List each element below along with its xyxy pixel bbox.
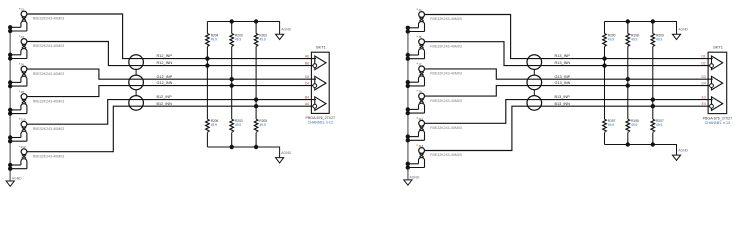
svg-text:R0E32K243-40M03: R0E32K243-40M03 <box>430 126 462 130</box>
wire G12_INP from J6 <box>27 69 316 79</box>
svg-text:49.9: 49.9 <box>235 123 241 127</box>
node junction L col2 N <box>230 83 234 87</box>
svg-text:R0E32K243-40M03: R0E32K243-40M03 <box>33 17 65 21</box>
wire top rail L <box>207 22 279 35</box>
resistor R198 <box>626 33 639 46</box>
svg-text:R13_INN: R13_INN <box>555 61 571 65</box>
op-amp buffer R2 <box>712 76 723 90</box>
resistor R206 <box>206 119 219 132</box>
svg-text:D2: D2 <box>701 61 705 65</box>
resistor R200 <box>230 33 243 46</box>
svg-text:D1: D1 <box>701 54 705 58</box>
svg-text:CHANNEL n-12: CHANNEL n-12 <box>308 120 333 124</box>
svg-text:J5: J5 <box>418 35 422 39</box>
resistor R195 <box>626 119 639 132</box>
node bubble input R2 <box>710 84 714 88</box>
resistor R209 <box>651 33 664 46</box>
wire termination column 2 L <box>231 22 233 148</box>
svg-text:J11: J11 <box>418 117 423 121</box>
connector J9 <box>406 90 462 116</box>
socket SKT1 R box <box>703 45 733 125</box>
node junction top rail R col2 <box>626 19 630 23</box>
node bubble input L1 <box>313 64 317 68</box>
resistor R202 <box>254 33 267 46</box>
svg-text:49.9: 49.9 <box>211 123 217 127</box>
resistor R197 <box>603 119 616 132</box>
svg-text:A4: A4 <box>305 102 309 106</box>
wire R12_INP from J2 <box>27 14 316 59</box>
shield circle pair 2 R <box>527 75 542 90</box>
wire shield link L 1-2 <box>135 69 137 75</box>
wire B12_INP from J10 <box>27 100 316 125</box>
resistor R205 <box>254 119 267 132</box>
svg-text:B13_INP: B13_INP <box>555 95 571 99</box>
svg-text:AGND: AGND <box>678 28 688 32</box>
node bubble input R1 <box>710 64 714 68</box>
shield circle pair 3 R <box>527 96 542 111</box>
svg-text:R0E32K243-40M03: R0E32K243-40M03 <box>33 72 65 76</box>
node junction L col1 N <box>205 63 209 67</box>
resistor R204 <box>206 33 219 46</box>
wire G13_INN from J9 <box>425 86 710 97</box>
svg-text:A6: A6 <box>305 54 309 58</box>
wire B12_INN from J12 <box>27 106 313 152</box>
shield circle pair 3 L <box>129 96 144 111</box>
svg-text:E3: E3 <box>702 95 706 99</box>
svg-text:B13_INN: B13_INN <box>555 102 571 106</box>
svg-text:49.9: 49.9 <box>259 37 265 41</box>
ground AGND top rail L <box>276 28 292 40</box>
wire R12_INN from J4 <box>27 42 313 66</box>
svg-text:J13: J13 <box>418 144 423 148</box>
node junction bottom rail L col3 <box>254 145 258 149</box>
svg-text:J7: J7 <box>418 62 422 66</box>
svg-text:PBGA-676_27X27: PBGA-676_27X27 <box>306 116 336 120</box>
connector J8 <box>8 90 64 116</box>
node junction bottom rail L col2 <box>230 145 234 149</box>
wire bottom rail L <box>207 147 279 158</box>
svg-text:R0E32K243-40M03: R0E32K243-40M03 <box>33 44 65 48</box>
node junction L col3 P <box>254 97 258 101</box>
svg-text:C4: C4 <box>305 81 309 85</box>
svg-text:J9: J9 <box>418 90 422 94</box>
connector J11 <box>406 117 462 143</box>
svg-text:SKT1: SKT1 <box>713 45 724 50</box>
wire G13_INP from J7 <box>425 69 713 79</box>
svg-text:AGND: AGND <box>281 28 291 32</box>
shield circle pair 1 R <box>527 55 542 70</box>
node junction L col1 P <box>205 56 209 60</box>
ground AGND bottom rail R <box>672 149 688 161</box>
svg-text:B6: B6 <box>305 61 309 65</box>
svg-text:R12_INN: R12_INN <box>157 61 173 65</box>
svg-text:R12_INP: R12_INP <box>157 54 173 58</box>
wire top rail R <box>605 22 677 35</box>
wire termination column 1 R <box>604 22 606 145</box>
op-amp buffer R3 <box>712 97 723 111</box>
node junction R col1 N <box>602 63 606 67</box>
svg-text:R0E32K243-40M03: R0E32K243-40M03 <box>33 127 65 131</box>
resistor R207 <box>651 119 664 132</box>
node junction R col1 P <box>602 56 606 60</box>
connector J2 <box>8 8 64 34</box>
svg-text:G13_INP: G13_INP <box>555 75 571 79</box>
socket SKT1 L box <box>306 45 336 125</box>
ground AGND top rail R <box>672 28 688 40</box>
op-amp buffer R1 <box>712 56 723 70</box>
svg-text:B12_INN: B12_INN <box>157 102 173 106</box>
node junction top rail L col2 <box>230 19 234 23</box>
connector J13 <box>406 144 462 170</box>
shield circle pair 2 L <box>129 75 144 90</box>
svg-text:J12: J12 <box>21 145 26 149</box>
node junction L col2 P <box>230 77 234 81</box>
connector J7 <box>406 62 462 88</box>
svg-text:R0E32K243-40M03: R0E32K243-40M03 <box>33 99 65 103</box>
svg-text:G13_INN: G13_INN <box>555 81 571 85</box>
svg-text:49.9: 49.9 <box>235 37 241 41</box>
svg-text:R0E32K243-40M03: R0E32K243-40M03 <box>430 44 462 48</box>
node bubble input L2 <box>313 84 317 88</box>
wire shield link L 2-3 <box>135 90 137 96</box>
svg-text:49.9: 49.9 <box>211 37 217 41</box>
svg-text:E4: E4 <box>702 102 706 106</box>
node junction bottom rail R col3 <box>651 142 655 146</box>
connector J5 <box>406 35 462 61</box>
wire termination column 3 L <box>255 22 257 148</box>
svg-text:49.9: 49.9 <box>631 123 637 127</box>
svg-text:49.9: 49.9 <box>608 123 614 127</box>
wire termination column 2 R <box>627 22 629 145</box>
resistor R203 <box>230 119 243 132</box>
wire G12_INN from J8 <box>27 86 313 97</box>
svg-text:R0E32K243-40M03: R0E32K243-40M03 <box>430 99 462 103</box>
svg-text:G12_INN: G12_INN <box>157 81 173 85</box>
node junction R col3 P <box>651 97 655 101</box>
svg-text:J10: J10 <box>21 118 26 122</box>
svg-text:R0E32K243-40M03: R0E32K243-40M03 <box>430 17 462 21</box>
wire B13_INN from J13 <box>425 106 710 150</box>
node junction L col3 N <box>254 104 258 108</box>
ground AGND bus L <box>6 176 22 186</box>
node junction bottom rail R col2 <box>626 142 630 146</box>
svg-text:D3: D3 <box>701 75 705 79</box>
svg-text:R0E32K243-40M03: R0E32K243-40M03 <box>33 154 65 158</box>
svg-text:49.9: 49.9 <box>608 37 614 41</box>
connector J3 <box>406 8 462 34</box>
svg-text:C6: C6 <box>305 75 309 79</box>
svg-text:AGND: AGND <box>12 176 22 180</box>
svg-text:J6: J6 <box>21 63 25 67</box>
svg-text:R0E32K243-40M03: R0E32K243-40M03 <box>430 72 462 76</box>
svg-text:PBGA-676_27X27: PBGA-676_27X27 <box>703 116 733 120</box>
svg-text:SKT1: SKT1 <box>316 45 327 50</box>
svg-text:49.9: 49.9 <box>656 123 662 127</box>
wire R13_INN from J5 <box>425 42 710 66</box>
wire bottom rail R <box>605 145 677 156</box>
svg-text:R0E32K243-40M03: R0E32K243-40M03 <box>430 153 462 157</box>
svg-text:J3: J3 <box>418 8 422 12</box>
ground AGND bottom rail L <box>276 151 292 163</box>
op-amp buffer L1 <box>315 56 326 70</box>
svg-text:J4: J4 <box>21 35 25 39</box>
svg-text:AGND: AGND <box>678 149 688 153</box>
wire ground bus L <box>9 27 11 181</box>
svg-text:CHANNEL n-13: CHANNEL n-13 <box>705 121 730 125</box>
svg-text:G12_INP: G12_INP <box>157 75 173 79</box>
node bubble input L3 <box>313 104 317 108</box>
node bubble input R3 <box>710 104 714 108</box>
svg-text:49.9: 49.9 <box>631 37 637 41</box>
wire termination column 3 R <box>652 22 654 145</box>
svg-text:R13_INP: R13_INP <box>555 54 571 58</box>
wire ground bus R <box>407 28 409 180</box>
op-amp buffer L3 <box>315 97 326 111</box>
node junction R col2 N <box>626 83 630 87</box>
connector J6 <box>8 63 64 89</box>
svg-text:AGND: AGND <box>410 175 420 179</box>
op-amp buffer L2 <box>315 76 326 90</box>
connector J4 <box>8 35 64 61</box>
node junction top rail L col3 <box>254 19 258 23</box>
svg-text:AGND: AGND <box>281 151 291 155</box>
node junction top rail R col3 <box>651 19 655 23</box>
svg-text:D4: D4 <box>701 81 705 85</box>
connector J10 <box>8 118 64 144</box>
ground AGND bus R <box>404 175 420 185</box>
node junction R col3 N <box>651 104 655 108</box>
wire B13_INP from J11 <box>425 100 713 124</box>
wire R13_INP from J3 <box>425 15 713 59</box>
wire shield link R 1-2 <box>533 69 535 75</box>
svg-text:J2: J2 <box>21 8 25 12</box>
wire shield link R 2-3 <box>533 90 535 96</box>
svg-text:49.9: 49.9 <box>656 37 662 41</box>
wire termination column 1 L <box>206 22 208 148</box>
svg-text:49.9: 49.9 <box>259 123 265 127</box>
connector J12 <box>8 145 64 171</box>
shield circle pair 1 L <box>129 55 144 70</box>
node junction R col2 P <box>626 77 630 81</box>
resistor R200 <box>603 33 616 46</box>
svg-text:J8: J8 <box>21 90 25 94</box>
svg-text:B4: B4 <box>305 95 309 99</box>
svg-text:B12_INP: B12_INP <box>157 95 173 99</box>
